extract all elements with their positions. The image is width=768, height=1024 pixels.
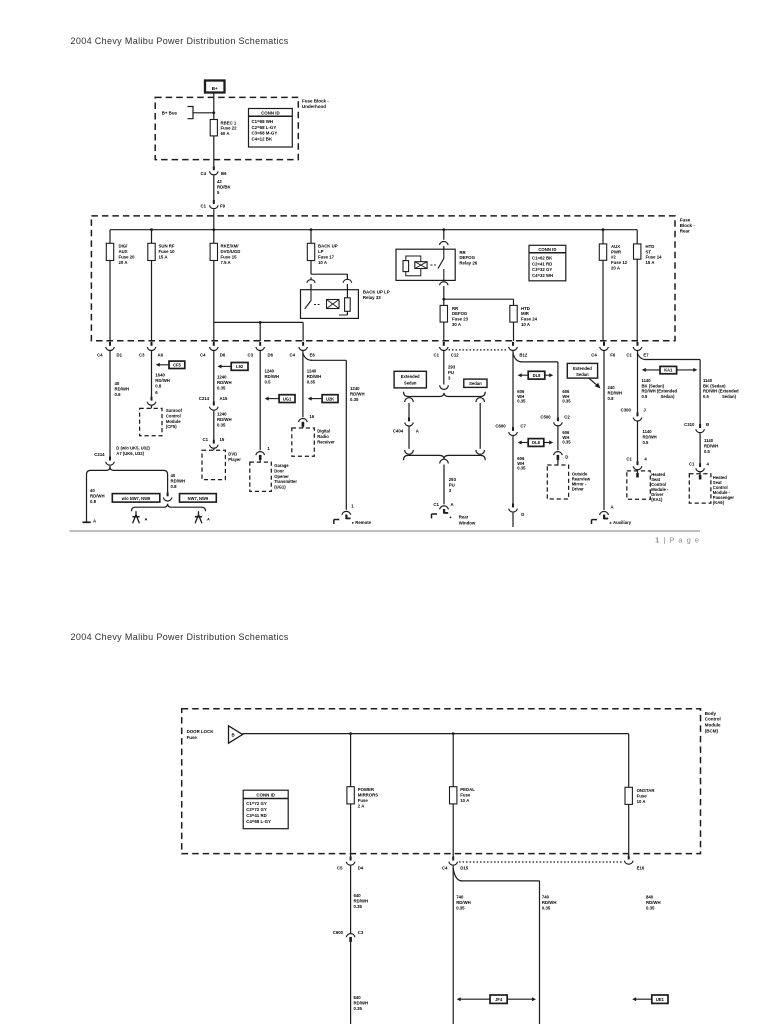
svg-text:Rear: Rear <box>680 228 690 233</box>
svg-text:CF5: CF5 <box>173 362 181 367</box>
svg-text:0.8: 0.8 <box>171 484 178 489</box>
svg-text:RD/WH: RD/WH <box>307 374 322 379</box>
svg-text:D4: D4 <box>358 866 364 871</box>
branch E7 to passenger seat wire <box>638 351 701 424</box>
svg-text:Garage: Garage <box>274 463 289 468</box>
svg-text:15 A: 15 A <box>646 260 655 265</box>
connector D left mirror <box>509 503 525 527</box>
svg-text:740: 740 <box>456 895 464 900</box>
connector C4-B6 <box>201 166 228 176</box>
svg-text:D15: D15 <box>460 866 468 871</box>
svg-text:Relay 33: Relay 33 <box>363 295 381 300</box>
svg-text:740: 740 <box>542 895 550 900</box>
wire 40 RD/WH 0.8 to A <box>87 475 105 522</box>
svg-text:B+ Bus: B+ Bus <box>162 110 178 115</box>
label relay 26 <box>459 250 477 266</box>
label door lock fuse <box>187 729 215 740</box>
svg-text:0.35: 0.35 <box>517 466 526 471</box>
wire 1240 RD/WH 0.35 (radio) <box>303 351 321 417</box>
label outside mirror driver <box>572 471 591 491</box>
svg-text:10 A: 10 A <box>637 799 646 804</box>
svg-text:C2=72 GY: C2=72 GY <box>246 807 267 812</box>
svg-text:RD/WH: RD/WH <box>217 380 232 385</box>
svg-text:Control: Control <box>705 717 721 722</box>
svg-text:Transmitter: Transmitter <box>274 479 297 484</box>
svg-text:w/o NW7, NW9: w/o NW7, NW9 <box>121 496 151 501</box>
svg-text:20 A: 20 A <box>611 266 620 271</box>
svg-text:1240: 1240 <box>265 369 275 374</box>
connector C5-D4 <box>337 857 364 871</box>
label sunroof control module <box>166 408 183 429</box>
relay 26 bottom connector <box>440 282 449 299</box>
svg-text:Fuse: Fuse <box>637 794 648 799</box>
wire 1240 RD/WH 0.35 (remote) <box>350 386 365 402</box>
fuse RR DEFOG Fuse 23 30A <box>440 305 469 327</box>
svg-text:Body: Body <box>705 711 717 716</box>
svg-text:CONN ID: CONN ID <box>538 247 556 252</box>
svg-text:RD/WH: RD/WH <box>155 378 170 383</box>
svg-text:20 A: 20 A <box>119 260 128 265</box>
connector C1-4 passenger seat <box>689 462 710 480</box>
fuse PEDAL 10A <box>450 787 476 804</box>
svg-text:UG1: UG1 <box>283 396 292 401</box>
svg-text:A: A <box>416 429 419 434</box>
svg-text:F6: F6 <box>610 352 616 357</box>
svg-text:Auxiliary: Auxiliary <box>613 520 632 525</box>
svg-text:1140: 1140 <box>703 378 713 383</box>
svg-text:BACK UP LP: BACK UP LP <box>363 290 390 295</box>
svg-text:RD/WH (Extended: RD/WH (Extended <box>642 389 678 394</box>
svg-text:RD/WH: RD/WH <box>542 900 557 905</box>
svg-text:1240: 1240 <box>217 412 227 417</box>
svg-text:7.5 A: 7.5 A <box>221 260 231 265</box>
svg-text:0.35: 0.35 <box>350 397 359 402</box>
svg-text:E7: E7 <box>643 352 649 357</box>
termination rear window defogger <box>432 506 476 526</box>
wire 1140 RD/WH 0.5 driver <box>638 422 657 462</box>
svg-text:Radio: Radio <box>317 434 329 439</box>
svg-text:60 A: 60 A <box>221 131 230 136</box>
svg-text:C7: C7 <box>520 423 526 428</box>
svg-text:1240: 1240 <box>307 369 317 374</box>
svg-text:BK (Sedan): BK (Sedan) <box>703 383 726 388</box>
svg-text:640: 640 <box>354 995 362 1000</box>
connector C600-C3 <box>333 930 364 942</box>
svg-text:C2: C2 <box>564 414 570 419</box>
connector pin 16 radio <box>299 414 315 428</box>
bus junction nodes <box>150 228 604 231</box>
svg-text:KA1: KA1 <box>664 368 673 373</box>
svg-text:Sedan: Sedan <box>404 380 417 385</box>
svg-text:LP: LP <box>318 249 324 254</box>
svg-text:RD/WH (Extended: RD/WH (Extended <box>703 389 739 394</box>
svg-text:B: B <box>706 422 709 427</box>
power bus wire <box>110 230 637 244</box>
svg-text:ST: ST <box>646 249 652 254</box>
svg-text:D (w/o UK5, U32): D (w/o UK5, U32) <box>116 445 150 450</box>
svg-text:C1: C1 <box>626 352 632 357</box>
svg-text:0.35: 0.35 <box>354 904 363 909</box>
connector D driver mirror <box>554 452 569 465</box>
svg-text:C214: C214 <box>199 396 210 401</box>
svg-text:HTD: HTD <box>521 306 530 311</box>
wire 640 RD/WH 0.35 upper <box>351 866 368 933</box>
label heated seat driver <box>651 472 669 502</box>
heated seat driver box <box>627 471 651 499</box>
wire 1240 RD/WH 0.35 (b) <box>214 411 232 440</box>
svg-text:C3: C3 <box>139 352 145 357</box>
svg-text:2004 Chevy Malibu Power Distri: 2004 Chevy Malibu Power Distribution Sch… <box>71 36 289 46</box>
svg-text:C1=68 WH: C1=68 WH <box>252 119 274 124</box>
svg-text:16: 16 <box>309 414 314 419</box>
svg-text:C1: C1 <box>433 502 439 507</box>
relay 33 pin connectors <box>307 274 352 290</box>
svg-text:POWER: POWER <box>358 787 375 792</box>
connector C500-C2 <box>540 414 570 426</box>
wire B+ bus to main feed <box>193 111 215 114</box>
fuse AUX PWR #2 Fuse 12 20A <box>599 244 627 271</box>
bcm feed wire <box>243 734 629 788</box>
svg-text:C3=32 GY: C3=32 GY <box>532 267 552 272</box>
relay 26 internals <box>403 249 444 280</box>
svg-text:C600: C600 <box>495 423 506 428</box>
svg-text:C3: C3 <box>248 352 254 357</box>
svg-text:RD/WH: RD/WH <box>354 899 369 904</box>
branch to remote wire <box>303 353 346 510</box>
svg-text:BACK UP: BACK UP <box>318 244 338 249</box>
svg-text:Fuse Block -: Fuse Block - <box>302 99 329 104</box>
svg-text:RKE/XM/: RKE/XM/ <box>221 244 240 249</box>
svg-text:BK (Sedan): BK (Sedan) <box>642 383 665 388</box>
dotted link D15 to E16 <box>459 861 623 863</box>
svg-text:Sunroof: Sunroof <box>166 408 183 413</box>
wire relay 26 output branch <box>442 298 513 306</box>
svg-text:C2=41 RD: C2=41 RD <box>532 261 552 266</box>
svg-text:C2=68 L-GY: C2=68 L-GY <box>252 125 277 130</box>
connector C310-B <box>684 422 709 433</box>
svg-text:RR: RR <box>452 306 459 311</box>
wire 293 PU 3 (upper) <box>440 351 456 390</box>
conn id table rear <box>529 245 566 280</box>
wire fuse 12 output <box>602 260 604 341</box>
svg-text:RD/BK: RD/BK <box>217 184 232 189</box>
svg-text:0.35: 0.35 <box>562 399 571 404</box>
svg-text:C3=41 RD: C3=41 RD <box>246 813 267 818</box>
label fuse block - underhood <box>302 99 329 110</box>
branch connector hooks upper <box>405 398 485 449</box>
svg-text:C4=12 BK: C4=12 BK <box>252 137 273 142</box>
svg-text:0.8: 0.8 <box>155 384 162 389</box>
svg-text:RD/WH: RD/WH <box>265 374 280 379</box>
svg-text:C1: C1 <box>689 462 695 467</box>
svg-text:Fuse 12: Fuse 12 <box>611 260 628 265</box>
wire 606 WH 0.35 left <box>513 351 526 427</box>
svg-text:RD/WH: RD/WH <box>646 900 661 905</box>
svg-text:C600: C600 <box>333 930 344 935</box>
wire 640 RD/WH 0.35 lower <box>351 942 368 1024</box>
svg-text:F9: F9 <box>220 203 226 208</box>
svg-text:Driver: Driver <box>572 487 584 492</box>
svg-text:C1=72 GY: C1=72 GY <box>246 801 267 806</box>
svg-text:D: D <box>565 455 568 460</box>
svg-text:Fuse 24: Fuse 24 <box>521 317 538 322</box>
svg-text:A: A <box>207 517 210 522</box>
svg-text:(UG1): (UG1) <box>274 485 286 490</box>
fuse RKE/XM/DVD/UGD Fuse 15 7.5A <box>210 243 240 265</box>
svg-text:C4: C4 <box>201 171 207 176</box>
svg-text:A: A <box>93 518 96 523</box>
svg-text:C1: C1 <box>203 437 209 442</box>
svg-text:Extended: Extended <box>401 374 420 379</box>
svg-text:Opener: Opener <box>274 474 289 479</box>
svg-text:DL8: DL8 <box>532 440 540 445</box>
wire 40 RD/WH 0.8 <box>110 351 129 457</box>
fuse SUN RF Fuse 10 15A <box>148 243 175 260</box>
svg-text:RD/WH: RD/WH <box>217 417 232 422</box>
svg-text:C404: C404 <box>393 429 404 434</box>
label dvd player <box>228 451 241 461</box>
svg-text:PU: PU <box>448 370 454 375</box>
connector into sunroof module <box>147 397 156 409</box>
connector C600-C7 <box>495 423 526 435</box>
connector C214-A15 <box>199 396 228 410</box>
connector C3-A6 <box>139 342 164 358</box>
wire split brace left <box>87 466 168 475</box>
svg-text:RD/WH: RD/WH <box>350 391 365 396</box>
wire fuse 17 to relay 33 <box>311 261 347 278</box>
door lock fuse buffer symbol <box>229 726 243 743</box>
svg-text:Fuse: Fuse <box>187 735 198 740</box>
svg-text:Sedan: Sedan <box>576 372 589 377</box>
svg-text:A: A <box>611 504 614 509</box>
wire B+ to underhood fuse block <box>213 93 215 120</box>
svg-text:0.5: 0.5 <box>703 394 709 399</box>
svg-text:RR: RR <box>459 250 466 255</box>
connector C4-F6 <box>591 342 616 358</box>
wire 1140 RD/WH 0.5 passenger <box>700 433 718 463</box>
svg-text:Remote: Remote <box>355 520 371 525</box>
svg-text:Block -: Block - <box>680 223 696 228</box>
svg-text:(CF5): (CF5) <box>166 424 177 429</box>
fuse RBEC 1 Fuse 22 60A <box>210 120 237 137</box>
wire onstar fuse output <box>628 804 630 855</box>
connector pin 1 garage <box>256 446 271 462</box>
option box NW7 NW9 <box>180 494 217 503</box>
svg-text:C500: C500 <box>540 414 551 419</box>
svg-text:AUX: AUX <box>119 249 128 254</box>
relay BACK UP LP Relay 33 box <box>301 290 359 319</box>
wire fuse 14 output <box>636 259 638 341</box>
relay 26 top connector <box>440 242 449 250</box>
svg-text:D1: D1 <box>117 352 123 357</box>
svg-text:C300: C300 <box>621 408 632 413</box>
svg-text:CONN ID: CONN ID <box>261 111 280 116</box>
svg-text:Window: Window <box>459 521 476 526</box>
tag CF5 <box>156 361 185 368</box>
fuse POWER MIRRORS 2A <box>347 787 378 809</box>
connector B12 <box>509 342 528 358</box>
svg-text:10 A: 10 A <box>521 322 530 327</box>
fuse ONSTAR 10A <box>625 787 655 804</box>
heated seat passenger box <box>689 474 711 503</box>
svg-text:A7 (UK6, U32): A7 (UK6, U32) <box>116 451 144 456</box>
wire 606 WH 0.35 right <box>562 389 571 404</box>
svg-text:D6: D6 <box>220 352 226 357</box>
svg-text:Fuse: Fuse <box>460 793 471 798</box>
svg-text:0.5: 0.5 <box>704 449 710 454</box>
connector C300-J <box>621 408 647 421</box>
dvd player box <box>202 450 225 479</box>
wire fuse 24 output <box>513 322 515 341</box>
connector C1-A rear defog <box>433 502 453 507</box>
svg-text:AUX: AUX <box>611 244 620 249</box>
wire fuse 20 output <box>109 261 111 342</box>
wire 1240 RD/WH 0.5 <box>260 351 279 450</box>
battery B+ terminal box <box>205 81 225 93</box>
svg-text:JF4: JF4 <box>495 997 503 1002</box>
svg-text:DOOR LOCK: DOOR LOCK <box>187 729 215 734</box>
antenna split brace <box>132 504 206 512</box>
svg-text:C1: C1 <box>434 352 440 357</box>
connector C4-E6 <box>290 342 316 358</box>
svg-text:A15: A15 <box>220 396 228 401</box>
connector C1-4 driver seat <box>626 457 647 478</box>
svg-text:42: 42 <box>217 179 222 184</box>
branch pedal wire <box>453 868 539 1024</box>
svg-text:1240: 1240 <box>217 374 227 379</box>
tag UE1 <box>632 995 668 1003</box>
connector C1-C12 <box>434 342 460 358</box>
relay RR DEFOG Relay 26 box <box>396 249 455 280</box>
footer page number <box>655 536 700 545</box>
svg-text:RD/WH: RD/WH <box>643 434 657 439</box>
wire fuse 22 to C4 <box>213 136 215 166</box>
svg-text:A6: A6 <box>158 352 164 357</box>
svg-text:0.35: 0.35 <box>562 440 571 445</box>
svg-text:0.35: 0.35 <box>542 906 551 911</box>
svg-text:#2: #2 <box>611 255 616 260</box>
svg-text:840: 840 <box>646 895 654 900</box>
svg-text:40: 40 <box>115 381 120 386</box>
svg-text:0.35: 0.35 <box>456 906 465 911</box>
wire to power mirrors fuse <box>350 734 352 787</box>
svg-text:Player: Player <box>228 457 241 462</box>
tag L92 <box>218 363 249 371</box>
svg-text:RD/WH: RD/WH <box>171 479 186 484</box>
svg-text:2 A: 2 A <box>358 803 365 808</box>
wire 293 PU 3 (lower) <box>440 459 457 504</box>
svg-text:B: B <box>232 733 235 738</box>
wire 1140 BK/RDWH driver <box>642 378 678 399</box>
svg-text:Receiver: Receiver <box>317 440 335 445</box>
wire 740 RD/WH 0.35 right <box>542 895 557 911</box>
connector C1-F9 <box>201 200 226 209</box>
page 2 title <box>71 632 289 642</box>
svg-text:D: D <box>521 512 524 517</box>
svg-text:C1: C1 <box>201 203 207 208</box>
wire 1140 BK/RDWH passenger <box>703 378 739 399</box>
wire 840 RD/WH 0.35 <box>646 895 661 911</box>
svg-text:RD/WH: RD/WH <box>90 494 105 499</box>
svg-text:RD/WH: RD/WH <box>608 391 623 396</box>
svg-text:CONN ID: CONN ID <box>256 793 275 798</box>
svg-text:0.5: 0.5 <box>265 380 272 385</box>
antenna right <box>195 511 210 523</box>
wire fuse 10 output <box>151 261 153 342</box>
svg-text:15 A: 15 A <box>159 255 168 260</box>
svg-text:DIG/: DIG/ <box>119 244 129 249</box>
svg-text:Door: Door <box>274 468 284 473</box>
svg-text:0.35: 0.35 <box>217 385 226 390</box>
wire 606 WH 0.35 left lower <box>513 436 526 503</box>
tag JF4 <box>457 995 536 1003</box>
wire bus drops <box>152 230 604 244</box>
svg-text:30 A: 30 A <box>452 322 461 327</box>
svg-text:1640: 1640 <box>155 373 165 378</box>
svg-text:Digital: Digital <box>317 429 330 434</box>
svg-text:B6: B6 <box>221 171 227 176</box>
connector E16 <box>624 856 644 871</box>
body control module dashed box <box>182 709 701 854</box>
wire 606 WH 0.35 right lower <box>558 426 571 450</box>
extended sedan pointer box <box>567 363 600 388</box>
svg-text:Fuse 17: Fuse 17 <box>318 255 335 260</box>
svg-text:C3=68 M-GY: C3=68 M-GY <box>252 131 278 136</box>
svg-text:C4=68 L-GY: C4=68 L-GY <box>246 819 271 824</box>
svg-text:1140: 1140 <box>704 438 714 443</box>
svg-text:0.35: 0.35 <box>307 380 316 385</box>
svg-text:PWR: PWR <box>611 249 622 254</box>
svg-text:RD/WH: RD/WH <box>115 387 130 392</box>
svg-text:C4: C4 <box>442 866 448 871</box>
conn id table underhood <box>249 109 293 148</box>
svg-text:0.8: 0.8 <box>115 392 122 397</box>
svg-text:Sedan: Sedan <box>469 381 482 386</box>
wire bus to relay 26 <box>443 230 445 240</box>
tag DL8 lower <box>518 439 554 447</box>
connector C4-D15 <box>442 857 469 871</box>
fuse HTD MIR Fuse 24 10A <box>510 305 538 327</box>
svg-text:Fuse 20: Fuse 20 <box>119 255 136 260</box>
fuse block - rear dashed box <box>91 216 675 341</box>
svg-text:240: 240 <box>608 385 616 390</box>
svg-text:Fuse 15: Fuse 15 <box>221 255 238 260</box>
wire 740 RD/WH 0.35 left <box>453 866 471 1024</box>
svg-text:Rear: Rear <box>459 515 469 520</box>
svg-text:Module: Module <box>166 419 181 424</box>
svg-text:1240: 1240 <box>350 386 360 391</box>
digital radio receiver box <box>292 428 315 456</box>
terminal A bar <box>83 518 97 523</box>
label digital radio receiver <box>317 429 335 445</box>
svg-text:Relay 26: Relay 26 <box>459 261 477 266</box>
branch B12 to right mirror wire <box>513 353 558 417</box>
svg-text:0.5: 0.5 <box>642 394 648 399</box>
svg-text:293: 293 <box>449 477 457 482</box>
wire pedal fuse output <box>452 804 454 857</box>
svg-text:DEFOG: DEFOG <box>452 311 468 316</box>
svg-text:Extended: Extended <box>573 366 592 371</box>
svg-text:Control: Control <box>166 413 181 418</box>
svg-text:(BCM): (BCM) <box>705 729 719 734</box>
svg-text:C1=62 BK: C1=62 BK <box>532 255 553 260</box>
wire 1240 RD/WH 0.35 (a) <box>214 351 232 402</box>
svg-text:0.35: 0.35 <box>354 1006 363 1011</box>
B+ Bus terminal <box>162 107 193 119</box>
svg-text:SUN RF: SUN RF <box>159 244 175 249</box>
svg-text:Sedan): Sedan) <box>722 394 737 399</box>
svg-text:U2K: U2K <box>326 396 334 401</box>
